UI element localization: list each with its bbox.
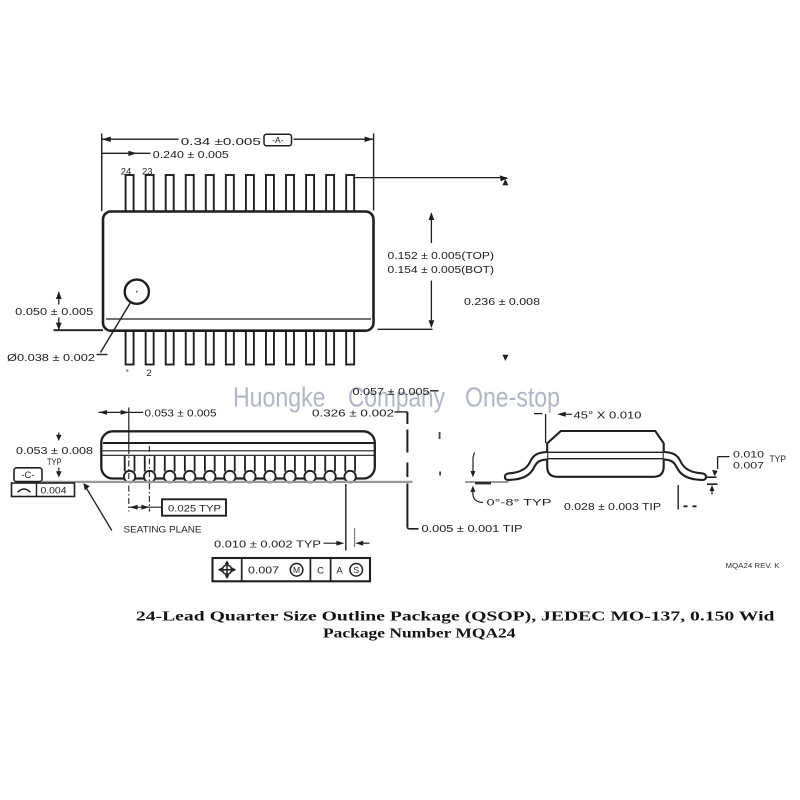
svg-text:A: A: [336, 566, 343, 577]
svg-text:45° X 0.010: 45° X 0.010: [574, 411, 643, 422]
side view: leads L1-L12: [124, 456, 356, 483]
svg-text:0.005 ± 0.001 TIP: 0.005 ± 0.001 TIP: [422, 524, 524, 535]
side view lead 5: [205, 456, 215, 472]
top view: body inner bottom line: [106, 318, 371, 320]
side view lead 7: [245, 456, 255, 472]
side view: mold line thick: [103, 442, 374, 444]
end view: standoff arrows left: [473, 453, 475, 472]
pin number 1 tick: [126, 370, 128, 372]
svg-text:0.028 ± 0.003 TIP: 0.028 ± 0.003 TIP: [564, 502, 662, 513]
side view: mold line thin upper: [103, 450, 375, 452]
right toe extension line: [677, 485, 679, 510]
svg-text:0.007: 0.007: [248, 566, 280, 577]
svg-text:-C-: -C-: [21, 470, 34, 481]
svg-text:-A-: -A-: [272, 135, 284, 145]
svg-text:0.050 ± 0.005: 0.050 ± 0.005: [15, 307, 94, 318]
svg-text:0.152 ± 0.005(TOP): 0.152 ± 0.005(TOP): [388, 251, 495, 262]
svg-text:S: S: [353, 565, 359, 575]
side view lead 11: [325, 456, 335, 472]
svg-text:0.326 ± 0.002: 0.326 ± 0.002: [312, 408, 395, 419]
dimension line 0.240: [102, 152, 151, 154]
end view: lead frame lines: [547, 451, 664, 453]
svg-text:MQA24 REV. K: MQA24 REV. K: [726, 563, 780, 570]
svg-text:M: M: [293, 565, 300, 575]
svg-text:0.240 ± 0.005: 0.240 ± 0.005: [153, 150, 230, 161]
svg-text:23: 23: [142, 167, 153, 178]
svg-text:SEATING PLANE: SEATING PLANE: [124, 524, 202, 534]
dimension line 0.152/0.154 vertical: [430, 214, 432, 244]
side view lead 4: [185, 456, 195, 472]
node arrow 0.236 bottom: [502, 355, 508, 361]
datum box -C-: [14, 468, 42, 482]
end view: left gull-wing lead: [505, 452, 706, 480]
svg-text:0.154 ± 0.005(BOT): 0.154 ± 0.005(BOT): [388, 265, 495, 276]
flatness control frame 0.004: [12, 483, 75, 497]
right lead thickness leader: [718, 457, 730, 469]
svg-text:0°-8° TYP: 0°-8° TYP: [487, 498, 552, 509]
extension line right for 0.34 dim: [373, 134, 375, 211]
svg-text:0.34 ±0.005: 0.34 ±0.005: [181, 137, 261, 148]
svg-text:Package Number MQA24: Package Number MQA24: [323, 625, 516, 640]
end view: seating plane under left foot: [465, 481, 509, 483]
side view lead 12: [345, 456, 355, 472]
dimension 0.053 top of side view: [99, 411, 144, 413]
svg-text:0.010 ± 0.002 TYP: 0.010 ± 0.002 TYP: [214, 540, 322, 551]
side view: package body: [101, 431, 375, 478]
svg-text:0.053 ± 0.005: 0.053 ± 0.005: [145, 408, 218, 419]
end view: package body: [547, 431, 664, 477]
side view lead 1: [125, 456, 135, 472]
leader wire to tip line: [395, 411, 408, 413]
dimension line 0.34: [102, 138, 374, 140]
pin 1 index circle: [125, 280, 149, 304]
svg-text:One-stop: One-stop: [465, 382, 560, 413]
svg-text:TYP: TYP: [47, 457, 62, 467]
svg-text:0.057 ± 0.005: 0.057 ± 0.005: [353, 387, 431, 398]
svg-text:24: 24: [121, 167, 132, 178]
svg-text:C: C: [317, 566, 324, 577]
svg-text:2: 2: [146, 368, 151, 379]
node arrow 0.236 top: [502, 179, 508, 185]
extension line top right (lead tip): [354, 177, 506, 179]
extension line left for 0.34 dim: [101, 134, 103, 212]
svg-text:TYP: TYP: [770, 454, 787, 464]
seating plane line: [42, 481, 413, 483]
boxed dimension 0.025 TYP: [162, 499, 226, 515]
side view lead 8: [265, 456, 275, 472]
svg-text:0.025 TYP: 0.025 TYP: [168, 503, 221, 513]
extension line bottom right of body: [378, 328, 433, 330]
centerline lead 1: [128, 408, 130, 449]
top view: pin 1 to pin 12 (bottom row leads): [126, 328, 355, 365]
svg-text:Ø0.038 ± 0.002: Ø0.038 ± 0.002: [7, 353, 96, 364]
side view lead 9: [285, 456, 295, 472]
top view: package body: [103, 212, 374, 331]
dashed lead-tip plane line: [406, 412, 408, 424]
dimension 0.050 left of top view: [58, 293, 60, 305]
side view lead 6: [225, 456, 235, 472]
datum box -A-: [264, 134, 292, 146]
extension line at body bottom left: [54, 329, 104, 331]
svg-text:0.007: 0.007: [733, 460, 764, 471]
right toe ticks: [707, 476, 717, 478]
top view: pin 24 to pin 13 (top row leads): [126, 175, 355, 214]
stray scan marks: [439, 432, 441, 439]
feature control frame: position 0.007 M C A S: [213, 558, 371, 581]
side view: mold line thin lower: [103, 454, 375, 456]
leader wire to pin-1 circle: [101, 303, 131, 353]
svg-text:0.053 ± 0.008: 0.053 ± 0.008: [16, 446, 94, 457]
svg-text:0.004: 0.004: [41, 486, 67, 496]
svg-text:0.236 ± 0.008: 0.236 ± 0.008: [464, 297, 541, 308]
svg-text:24-Lead Quarter Size Outline P: 24-Lead Quarter Size Outline Package (QS…: [136, 609, 775, 624]
centerline lead 2: [148, 446, 150, 512]
dimension 0.053 body height arrows: [58, 433, 60, 437]
side view lead 2: [145, 456, 155, 472]
side view lead 10: [305, 456, 315, 472]
side view lead 3: [165, 456, 175, 472]
svg-text:0.010: 0.010: [733, 450, 764, 461]
end view: right gull-wing lead: [664, 452, 706, 480]
end view: chamfer dimension 45 deg: [534, 413, 543, 415]
leader wire seating plane: [84, 485, 112, 531]
